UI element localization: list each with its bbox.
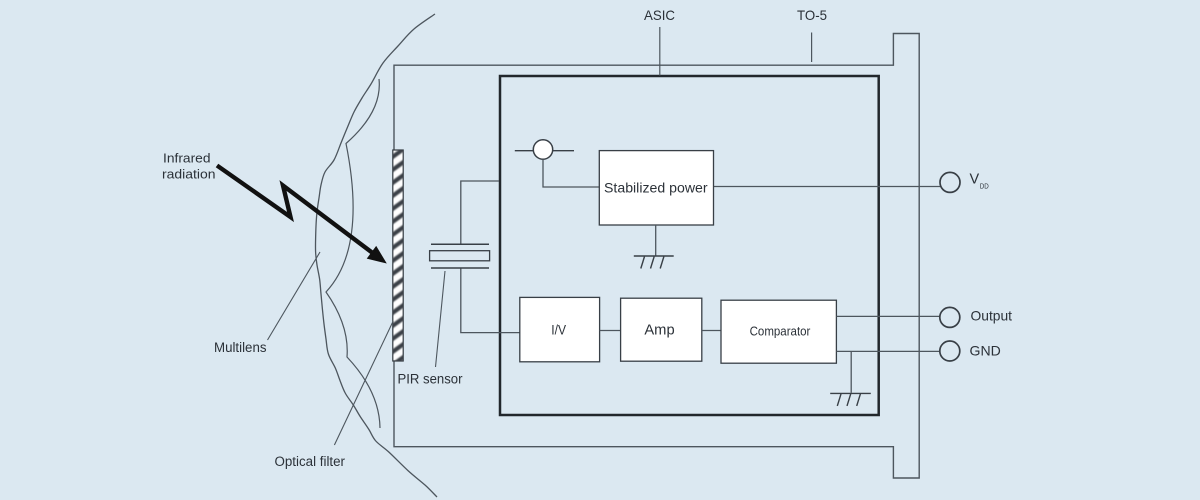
terminal Output [940, 307, 960, 327]
svg-text:GND: GND [970, 342, 1001, 358]
leader line ASIC [659, 27, 661, 76]
terminal GND [940, 341, 960, 361]
svg-text:Output: Output [971, 308, 1013, 324]
ASIC box U1 [500, 76, 879, 415]
GND wire [836, 350, 941, 352]
leader line TO-5 [811, 33, 813, 63]
arrowhead [369, 248, 385, 262]
svg-text:TO-5: TO-5 [797, 7, 827, 23]
V_DD wire [714, 186, 941, 188]
svg-text:Amp: Amp [644, 323, 674, 339]
wire Stabilized power to ground [655, 225, 657, 256]
wire GND to ground [850, 351, 852, 392]
optical filter hatched bar [391, 148, 405, 366]
PIR sensor pyroelectric element [430, 244, 490, 268]
svg-text:ASIC: ASIC [644, 7, 675, 23]
ground symbol under Stabilized power [634, 256, 674, 269]
Comparator block [721, 300, 836, 363]
svg-text:DD: DD [980, 182, 989, 191]
wire I/V to Amp [600, 330, 621, 332]
wire Amp to Comparator [702, 330, 721, 332]
svg-text:Infrared: Infrared [163, 151, 211, 165]
terminal VDD [940, 172, 960, 192]
svg-text:PIR sensor: PIR sensor [398, 372, 463, 387]
svg-text:Stabilized power: Stabilized power [604, 179, 708, 195]
leader line Optical filter [334, 321, 393, 445]
Amp block [621, 298, 702, 361]
I/V block [520, 297, 600, 361]
svg-text:radiation: radiation [162, 168, 216, 182]
svg-text:Multilens: Multilens [214, 340, 267, 355]
Stabilized power block [599, 151, 713, 225]
bulb/thermistor circle symbol [515, 140, 574, 159]
leader line PIR sensor [436, 271, 446, 367]
wire from circle to Stabilized power [543, 159, 599, 187]
multilens scallop segments [326, 79, 380, 428]
PIR sensor element wire to I/V (bottom) [461, 268, 520, 333]
TO-5 package outline [394, 34, 919, 479]
svg-text:Optical filter: Optical filter [275, 454, 346, 469]
ground symbol near Comparator [830, 393, 871, 406]
multilens big arc [315, 14, 437, 497]
Output wire [836, 315, 941, 317]
PIR sensor element wire to ASIC (top) [461, 181, 499, 244]
infrared radiation zigzag arrow [217, 166, 374, 255]
svg-text:V: V [970, 171, 980, 187]
leader line Multilens [268, 252, 321, 340]
svg-text:Comparator: Comparator [750, 325, 811, 339]
svg-text:I/V: I/V [551, 323, 566, 338]
